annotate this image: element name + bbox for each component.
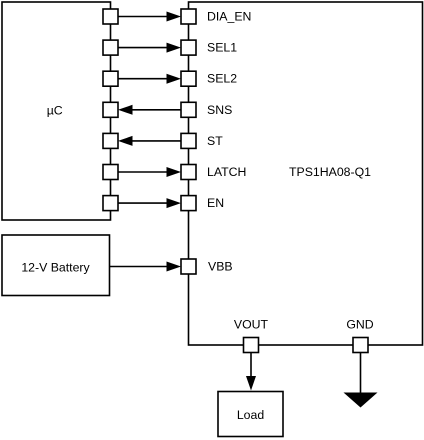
wire ST (U1 to µC, arrow left) (118, 136, 181, 146)
ground symbol (344, 393, 378, 408)
U1 pin SNS (181, 102, 196, 117)
U1 pin VBB (181, 259, 196, 274)
svg-text:LATCH: LATCH (207, 165, 246, 179)
svg-text:EN: EN (207, 196, 224, 210)
U1 pin SEL1 (181, 40, 196, 55)
µC pin (LATCH) (103, 165, 118, 180)
wire VBB (battery to U1, arrow right) (110, 262, 182, 272)
wire DIA_EN (µC to U1, arrow right) (118, 12, 181, 22)
IC U1 TPS1HA08-Q1 block (189, 2, 423, 345)
U1 pin GND (353, 338, 368, 353)
wire SNS (U1 to µC, arrow left) (118, 105, 181, 115)
µC pin (DIA_EN) (103, 9, 118, 24)
svg-text:VBB: VBB (208, 260, 233, 274)
battery BT1 12-V block (2, 235, 110, 296)
svg-text:SEL2: SEL2 (207, 72, 237, 86)
svg-text:12-V Battery: 12-V Battery (21, 261, 90, 275)
wire SEL1 (µC to U1, arrow right) (118, 43, 181, 53)
wire EN (µC to U1, arrow right) (118, 198, 181, 208)
svg-text:SNS: SNS (207, 103, 232, 117)
svg-text:VOUT: VOUT (234, 318, 269, 332)
µC pin (SEL2) (103, 71, 118, 86)
microcontroller µC block (2, 2, 111, 220)
U1 pin VOUT (244, 338, 259, 353)
wire GND to ground (360, 353, 362, 394)
svg-text:SEL1: SEL1 (207, 41, 237, 55)
U1 pin LATCH (181, 165, 196, 180)
U1 pin EN (181, 196, 196, 211)
µC pin (SNS) (103, 102, 118, 117)
wire LATCH (µC to U1, arrow right) (118, 167, 181, 177)
U1 pin SEL2 (181, 71, 196, 86)
svg-text:GND: GND (346, 318, 373, 332)
svg-text:TPS1HA08-Q1: TPS1HA08-Q1 (289, 165, 371, 179)
load block (218, 392, 283, 437)
wire VOUT to load (arrow down) (246, 353, 256, 391)
svg-text:DIA_EN: DIA_EN (207, 10, 251, 24)
U1 pin ST (181, 133, 196, 148)
µC pin (SEL1) (103, 40, 118, 55)
U1 pin DIA_EN (181, 9, 196, 24)
wire SEL2 (µC to U1, arrow right) (118, 74, 181, 84)
svg-text:ST: ST (207, 134, 223, 148)
µC pin (EN) (103, 196, 118, 211)
svg-text:µC: µC (47, 103, 63, 117)
µC pin (ST) (103, 133, 118, 148)
svg-text:Load: Load (237, 408, 265, 422)
